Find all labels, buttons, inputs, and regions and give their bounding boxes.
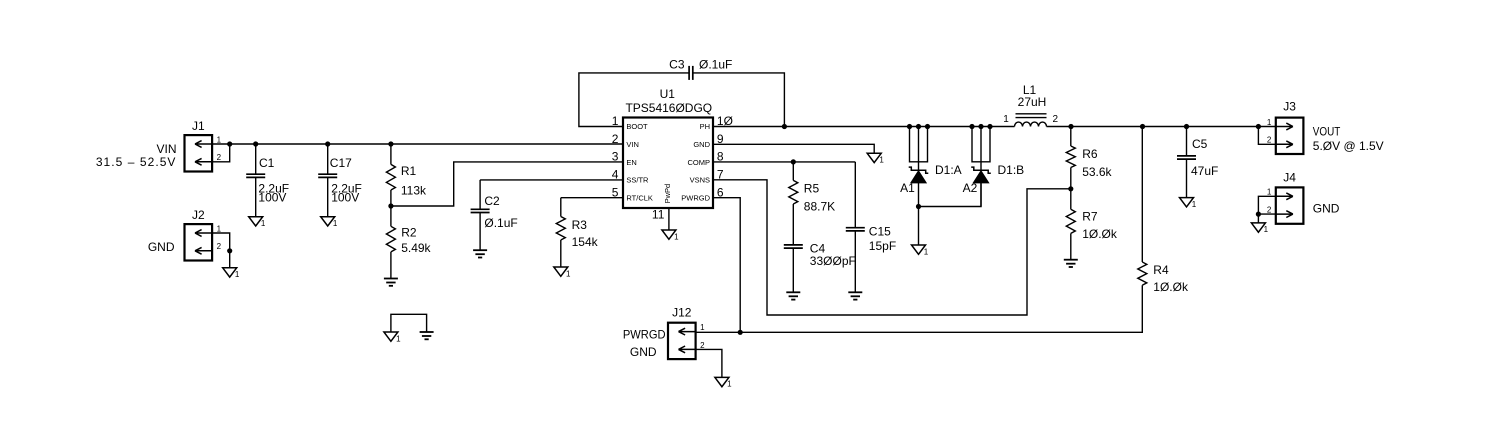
svg-text:J4: J4 <box>1283 170 1296 184</box>
wire J4 pin1 to ground <box>1258 196 1275 223</box>
inductor L1 <box>1003 83 1058 127</box>
svg-text:GND: GND <box>693 140 710 149</box>
svg-text:D1:A: D1:A <box>935 163 962 177</box>
wire J1 pin1 <box>212 143 230 145</box>
svg-text:11: 11 <box>652 208 665 222</box>
J12 net labels <box>623 327 666 359</box>
svg-text:1: 1 <box>396 334 401 343</box>
svg-text:VIN: VIN <box>626 140 639 149</box>
wire PH rail <box>784 126 1014 128</box>
svg-text:2: 2 <box>1267 136 1272 145</box>
junction COMP/R5 <box>791 159 796 164</box>
svg-text:1: 1 <box>235 270 240 279</box>
svg-text:R4: R4 <box>1153 263 1169 277</box>
wire PWRGD from U1 pin6 <box>713 198 740 333</box>
wire C15 top <box>854 162 856 228</box>
svg-text:1: 1 <box>261 219 266 228</box>
svg-text:88.7K: 88.7K <box>804 200 835 214</box>
ground J4 (type1) <box>1251 223 1268 234</box>
wire C3 to PH rail <box>693 73 785 127</box>
wire R1 bottom <box>390 190 392 206</box>
ground D1 (type1) <box>912 245 929 256</box>
resistor R1 <box>386 164 427 197</box>
svg-text:C4: C4 <box>810 241 826 255</box>
svg-text:154k: 154k <box>572 235 599 249</box>
svg-text:Ø.1uF: Ø.1uF <box>484 216 517 230</box>
ground C1 (type1) <box>249 217 266 228</box>
ground net-tie (earth) <box>420 332 434 339</box>
junction R1/R2/EN <box>388 203 393 208</box>
junction PWRGD/J12 <box>738 330 743 335</box>
wire J12 pin2 to ground <box>696 349 722 377</box>
svg-text:GND: GND <box>1313 201 1340 215</box>
wire VIN rail <box>230 143 623 145</box>
svg-text:Ø.1uF: Ø.1uF <box>699 57 732 71</box>
svg-text:J3: J3 <box>1283 99 1296 113</box>
wire R7 top <box>1070 189 1072 210</box>
capacitor C3 <box>669 57 732 80</box>
svg-text:R2: R2 <box>401 225 417 239</box>
connector J2 <box>185 208 222 261</box>
svg-text:1: 1 <box>217 135 222 144</box>
wire U1 pin9 GND <box>713 144 874 153</box>
junction C5 tap <box>1184 124 1189 129</box>
capacitor C1 <box>246 156 289 204</box>
junction J3 pin2 riser <box>1256 124 1261 129</box>
svg-text:R7: R7 <box>1082 209 1098 223</box>
ground net-tie (type1) <box>384 332 401 343</box>
svg-text:1: 1 <box>879 156 884 165</box>
svg-text:53.6k: 53.6k <box>1082 165 1112 179</box>
wire C5 bottom <box>1186 159 1188 198</box>
svg-text:A1: A1 <box>900 181 915 195</box>
junction J1 pin1/pin2 <box>227 141 232 146</box>
ground R3 (type1) <box>554 267 571 278</box>
junction C1 tap <box>253 141 258 146</box>
junction C3/PH <box>782 124 787 129</box>
svg-text:2: 2 <box>217 242 222 251</box>
svg-text:5: 5 <box>612 185 619 199</box>
svg-text:1Ø.Øk: 1Ø.Øk <box>1153 280 1189 294</box>
svg-text:RT/CLK: RT/CLK <box>626 193 653 202</box>
svg-text:15pF: 15pF <box>869 239 896 253</box>
wire U1 pin11 to ground <box>668 208 670 230</box>
resistor R4 <box>1138 262 1189 294</box>
svg-text:D1:B: D1:B <box>998 163 1025 177</box>
svg-text:BOOT: BOOT <box>626 122 648 131</box>
ground J2 (type1) <box>223 268 240 279</box>
wire EN net to U1 pin3 <box>391 162 623 206</box>
svg-text:113k: 113k <box>401 183 427 197</box>
resistor R6 <box>1066 146 1112 179</box>
svg-text:2: 2 <box>700 341 705 350</box>
wire BOOT to C3 <box>579 73 689 127</box>
svg-text:27uH: 27uH <box>1018 95 1047 109</box>
svg-text:1: 1 <box>566 269 571 278</box>
wire C1 bottom <box>255 177 257 216</box>
junction R4 tap <box>1140 124 1145 129</box>
junction D1:A pin x909.5 <box>907 124 912 129</box>
svg-text:5.ØV @ 1.5V: 5.ØV @ 1.5V <box>1313 139 1384 153</box>
svg-text:GND: GND <box>148 240 175 254</box>
wire C17 bottom <box>327 177 329 216</box>
junction R6/R7/VSNS <box>1068 186 1073 191</box>
junction J4 pin2 <box>1256 212 1261 217</box>
connector J3 <box>1267 99 1304 154</box>
wire R5 top <box>792 162 794 181</box>
resistor R2 <box>386 225 431 255</box>
junction C17 tap <box>325 141 330 146</box>
svg-text:1: 1 <box>1264 225 1269 234</box>
svg-text:C3: C3 <box>669 57 685 71</box>
svg-text:PwPd: PwPd <box>663 184 672 204</box>
svg-text:1: 1 <box>217 224 222 233</box>
diode D1:A <box>900 127 962 206</box>
svg-text:2: 2 <box>1053 114 1059 125</box>
svg-text:1: 1 <box>700 323 705 332</box>
ground C17 (type1) <box>321 217 338 228</box>
svg-text:33ØØpF: 33ØØpF <box>810 254 856 268</box>
capacitor C15 <box>846 224 896 253</box>
capacitor C2 <box>471 194 518 230</box>
connector J4 <box>1267 170 1304 223</box>
svg-text:2: 2 <box>217 153 222 162</box>
svg-text:R3: R3 <box>572 218 588 232</box>
wire D1:B anode to D1:A anode <box>919 183 982 206</box>
svg-text:R5: R5 <box>804 181 820 195</box>
svg-text:1Ø.Øk: 1Ø.Øk <box>1082 227 1118 241</box>
junction R6 tap <box>1068 124 1073 129</box>
wire PWRGD net <box>696 285 1143 332</box>
capacitor C17 <box>318 156 362 204</box>
ground C5 (type1) <box>1180 198 1197 209</box>
wire C15 bottom <box>854 231 856 292</box>
wire C1 top <box>255 144 257 174</box>
svg-text:R6: R6 <box>1082 147 1098 161</box>
svg-text:PWRGD: PWRGD <box>681 193 710 202</box>
J3 net labels VOUT <box>1313 125 1384 154</box>
svg-text:C15: C15 <box>869 224 891 238</box>
wire J2 pin1 to ground <box>212 233 230 268</box>
wire C4 bottom <box>792 248 794 292</box>
U1 pin numbers <box>612 114 733 221</box>
wire VOUT rail <box>1047 126 1278 128</box>
svg-text:1: 1 <box>924 247 929 256</box>
ground U1 pin11 (type1) <box>662 230 679 241</box>
svg-text:TPS5416ØDGQ: TPS5416ØDGQ <box>625 101 712 115</box>
svg-text:2: 2 <box>612 132 619 146</box>
wire C2 bottom <box>479 213 481 251</box>
wire RT/CLK net to U1 pin5 <box>561 197 623 199</box>
junction D1 anodes <box>916 204 921 209</box>
svg-text:1: 1 <box>727 380 732 389</box>
wire U1 pin10 PH <box>713 126 784 128</box>
svg-text:R1: R1 <box>401 164 417 178</box>
ground R7 (earth) <box>1064 260 1078 267</box>
junction D1:A pin x927.5 <box>925 124 930 129</box>
svg-text:1: 1 <box>674 232 679 241</box>
svg-text:1: 1 <box>1003 114 1009 125</box>
ground R2 (earth) <box>384 279 398 286</box>
svg-text:VSNS: VSNS <box>690 176 710 185</box>
svg-text:A2: A2 <box>963 181 978 195</box>
resistor R7 <box>1066 209 1118 241</box>
wire R1 top <box>390 144 392 164</box>
svg-text:U1: U1 <box>660 87 676 101</box>
svg-text:31.5 – 52.5V: 31.5 – 52.5V <box>96 155 177 169</box>
svg-text:VOUT: VOUT <box>1313 125 1341 139</box>
wire ground net-tie <box>391 314 427 332</box>
junction D1:B pin x972 <box>969 124 974 129</box>
wire R6 bottom <box>1070 168 1072 189</box>
svg-text:5.49k: 5.49k <box>401 241 431 255</box>
wire R6 top <box>1070 127 1072 147</box>
capacitor C5 <box>1177 137 1218 178</box>
junction R1 tap <box>388 141 393 146</box>
svg-text:GND: GND <box>630 345 657 359</box>
wire D1 anode to ground <box>918 207 920 246</box>
svg-text:1: 1 <box>1267 188 1272 197</box>
svg-text:3: 3 <box>612 150 619 164</box>
svg-text:C2: C2 <box>484 194 500 208</box>
wire J4 pin2 <box>1258 213 1275 215</box>
wire C2 top <box>479 180 481 209</box>
wire R3 bottom <box>560 240 562 267</box>
wire C17 top <box>327 144 329 174</box>
svg-text:PH: PH <box>700 122 710 131</box>
resistor R3 <box>556 217 598 250</box>
junction D1:B pin x981 <box>978 124 983 129</box>
ground J12 (type1) <box>715 377 732 388</box>
svg-text:EN: EN <box>626 158 636 167</box>
op-amp U1 TPS54160DGQ body <box>623 87 713 208</box>
ground U1 pin9 (type1) <box>867 153 884 164</box>
svg-text:2: 2 <box>1267 206 1272 215</box>
svg-text:47uF: 47uF <box>1191 164 1218 178</box>
svg-text:C1: C1 <box>259 156 275 170</box>
wire R2 bottom <box>390 252 392 279</box>
ground C2 (earth) <box>473 250 487 257</box>
junction D1:A pin x918.5 <box>916 124 921 129</box>
junction J2 pin2 <box>227 248 232 253</box>
svg-text:SS/TR: SS/TR <box>626 176 649 185</box>
svg-text:J1: J1 <box>192 119 205 133</box>
svg-text:100V: 100V <box>258 191 286 205</box>
wire J1 pin2 riser <box>212 144 230 162</box>
wire R7 bottom <box>1070 233 1072 259</box>
svg-text:C17: C17 <box>330 156 352 170</box>
J1 net labels VIN <box>96 142 177 169</box>
junction D1:B pin x990 <box>987 124 992 129</box>
svg-text:C5: C5 <box>1192 137 1208 151</box>
svg-text:PWRGD: PWRGD <box>623 327 666 341</box>
connector J12 <box>668 305 705 359</box>
wire C5 top <box>1186 127 1188 156</box>
svg-text:1: 1 <box>333 219 338 228</box>
capacitor C4 <box>784 241 856 268</box>
wire R5 to C4 <box>792 204 794 245</box>
svg-text:1: 1 <box>1192 200 1197 209</box>
diode D1:B <box>963 127 1025 206</box>
ground C4 (earth) <box>786 292 800 299</box>
svg-text:1: 1 <box>1267 118 1272 127</box>
wire J3 pin2 riser <box>1258 127 1275 145</box>
svg-text:100V: 100V <box>331 191 359 205</box>
resistor R5 <box>789 180 835 213</box>
wire COMP net <box>713 161 855 163</box>
svg-text:J12: J12 <box>672 305 692 319</box>
ground C15 (earth) <box>848 292 862 299</box>
wire R2 top <box>390 206 392 226</box>
wire R4 top <box>1141 127 1143 263</box>
wire SS/TR net to U1 pin4 <box>480 179 623 181</box>
wire VSNS net <box>713 180 1071 315</box>
svg-text:J2: J2 <box>192 208 205 222</box>
svg-text:4: 4 <box>612 168 619 182</box>
connector J1 <box>185 119 222 172</box>
wire R3 top <box>560 198 562 217</box>
svg-text:COMP: COMP <box>688 158 711 167</box>
